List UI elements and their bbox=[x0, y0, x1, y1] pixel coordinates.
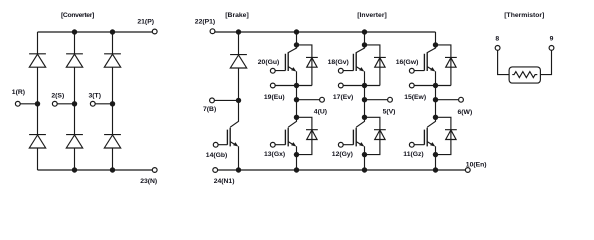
svg-text:23(N): 23(N) bbox=[140, 178, 157, 185]
svg-text:9: 9 bbox=[550, 36, 554, 43]
svg-text:16(Gw): 16(Gw) bbox=[396, 59, 419, 66]
svg-text:13(Gx): 13(Gx) bbox=[264, 151, 285, 158]
svg-text:24(N1): 24(N1) bbox=[214, 178, 235, 185]
svg-text:6(W): 6(W) bbox=[458, 109, 473, 116]
svg-text:12(Gy): 12(Gy) bbox=[332, 151, 353, 158]
svg-text:7(B): 7(B) bbox=[203, 106, 216, 113]
svg-text:3(T): 3(T) bbox=[89, 93, 101, 100]
svg-text:2(S): 2(S) bbox=[51, 93, 64, 100]
svg-text:[Converter]: [Converter] bbox=[61, 12, 94, 19]
svg-text:19(Eu): 19(Eu) bbox=[264, 94, 285, 101]
svg-text:4(U): 4(U) bbox=[314, 109, 327, 116]
svg-text:11(Gz): 11(Gz) bbox=[403, 151, 423, 158]
svg-text:14(Gb): 14(Gb) bbox=[206, 152, 228, 159]
svg-text:[Brake]: [Brake] bbox=[225, 12, 248, 19]
svg-text:[Thermistor]: [Thermistor] bbox=[504, 12, 544, 19]
svg-text:21(P): 21(P) bbox=[137, 18, 154, 25]
svg-text:20(Gu): 20(Gu) bbox=[258, 59, 280, 66]
svg-text:8: 8 bbox=[495, 36, 499, 43]
svg-text:[Inverter]: [Inverter] bbox=[357, 12, 386, 19]
svg-text:10(En): 10(En) bbox=[466, 161, 487, 168]
svg-text:22(P1): 22(P1) bbox=[195, 18, 215, 25]
svg-text:5(V): 5(V) bbox=[383, 109, 396, 116]
svg-text:18(Gv): 18(Gv) bbox=[328, 59, 349, 66]
svg-text:15(Ew): 15(Ew) bbox=[404, 94, 426, 101]
svg-text:1(R): 1(R) bbox=[12, 89, 25, 96]
svg-text:17(Ev): 17(Ev) bbox=[333, 94, 353, 101]
